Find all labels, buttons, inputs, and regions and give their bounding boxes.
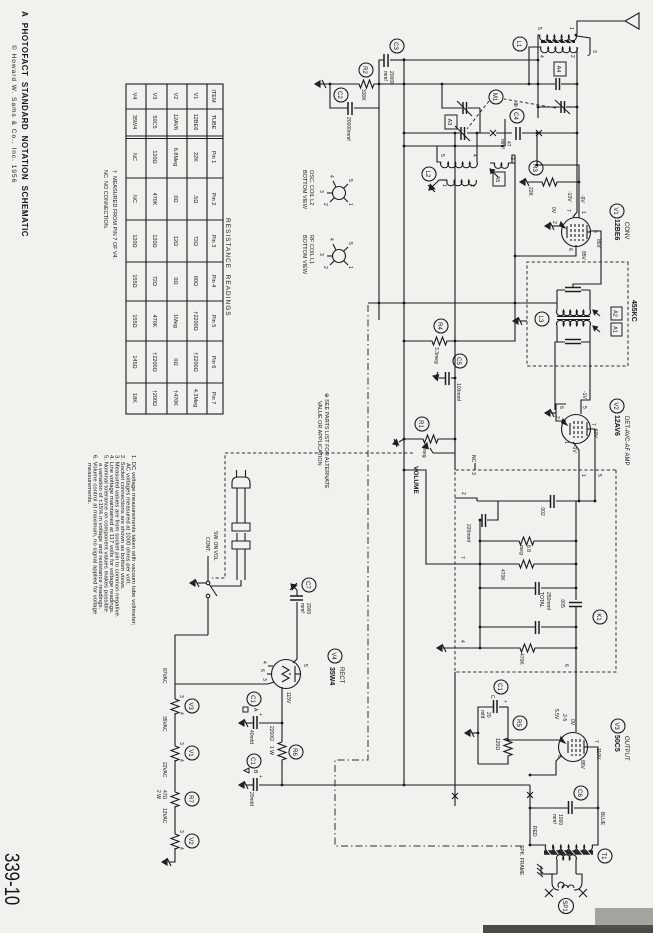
svg-text:ITEM: ITEM	[210, 89, 216, 103]
svg-text:BOTTOM VIEW: BOTTOM VIEW	[301, 235, 307, 275]
svg-text:0Ω: 0Ω	[172, 277, 178, 284]
svg-text:5: 5	[347, 242, 353, 245]
wire switch to heater chain	[175, 635, 208, 684]
label R4	[434, 319, 448, 333]
svg-text:0Ω: 0Ω	[172, 358, 178, 365]
svg-text:22VAC: 22VAC	[161, 762, 167, 778]
antenna	[625, 13, 639, 29]
svg-text:1: 1	[580, 474, 586, 477]
svg-text:A5: A5	[494, 176, 500, 183]
svg-text:M1: M1	[491, 93, 497, 102]
junction trimmer top	[576, 83, 579, 86]
interlock connector half B	[232, 541, 250, 549]
wire C3 drop	[390, 59, 404, 61]
capacitor C4 47mmf	[516, 127, 520, 140]
svg-text:† MEASURED FROM PIN 7 OF V4.: † MEASURED FROM PIN 7 OF V4.	[111, 170, 117, 260]
resistor R3 22K	[527, 178, 579, 186]
svg-text:220mmf: 220mmf	[465, 524, 471, 543]
slug arrow (L2)	[490, 169, 498, 177]
svg-text:3: 3	[591, 50, 597, 53]
label V3	[611, 719, 625, 733]
svg-text:72Ω: 72Ω	[192, 236, 198, 246]
svg-text:3: 3	[470, 472, 476, 475]
wire osc grid line	[536, 133, 538, 165]
svg-text:6: 6	[563, 664, 569, 667]
electrolytic C1A 40mfd	[259, 722, 282, 724]
svg-text:85V: 85V	[580, 251, 586, 261]
dashed link volume to switch	[212, 453, 413, 578]
IF secondary bottom rail	[556, 326, 558, 342]
svg-text:6.8: 6.8	[525, 545, 531, 552]
svg-text:Pin 7: Pin 7	[210, 392, 216, 405]
x splice mark (gang bottom)	[490, 130, 496, 136]
svg-text:3: 3	[178, 830, 184, 833]
capacitor .005	[569, 603, 582, 607]
IF primary top rail	[589, 290, 591, 310]
wire heater end	[169, 848, 175, 862]
couplate K1 dashed box	[455, 470, 616, 672]
svg-text:V2: V2	[187, 837, 193, 845]
svg-text:Pin 2: Pin 2	[210, 193, 216, 206]
svg-text:6.8Meg: 6.8Meg	[172, 148, 178, 166]
svg-text:0V: 0V	[550, 207, 556, 214]
svg-text:mmf: mmf	[499, 139, 505, 149]
svg-text:20mfd: 20mfd	[248, 792, 254, 806]
svg-text:3.3meg: 3.3meg	[433, 347, 439, 364]
heater V1	[171, 746, 179, 761]
svg-text:C7: C7	[304, 581, 310, 589]
trimmer A5 box	[493, 172, 505, 186]
gang motor label M1	[489, 90, 503, 104]
svg-text:2: 2	[469, 184, 475, 187]
coil L1 secondary winding	[541, 47, 578, 53]
wire R3 to V1 osc grid	[537, 165, 579, 218]
svg-text:⊕ SEE PARTS LIST FOR ALTERNATE: ⊕ SEE PARTS LIST FOR ALTERNATE	[323, 393, 329, 489]
svg-text:3: 3	[318, 190, 324, 193]
svg-text:NC: NC	[470, 455, 476, 463]
svg-text:A: A	[252, 708, 258, 712]
svg-text:1: 1	[441, 184, 447, 187]
wire detector line to power	[454, 672, 456, 806]
electrolytic C1B 20mfd	[254, 778, 258, 791]
svg-text:1Meg: 1Meg	[172, 314, 178, 328]
IF primary bottom rail	[556, 290, 558, 310]
AC line plug	[232, 470, 250, 488]
svg-text:V4: V4	[330, 652, 336, 660]
svg-text:12BE6: 12BE6	[613, 219, 620, 241]
junction IF B+	[403, 302, 406, 305]
svg-text:mfd: mfd	[479, 710, 485, 719]
wire L1 tank bottom rail	[538, 35, 540, 118]
wire heater	[174, 713, 176, 746]
svg-text:40mfd: 40mfd	[248, 730, 254, 744]
svg-text:4: 4	[178, 847, 184, 850]
label R2	[359, 63, 373, 77]
svg-text:V2: V2	[172, 93, 178, 100]
wire heater	[174, 760, 176, 792]
junction R2 top	[378, 83, 381, 86]
label C4	[510, 109, 524, 123]
wire V3 plate to T1	[588, 747, 599, 845]
wire tickler to screen rail	[490, 162, 515, 164]
label V2	[610, 399, 624, 413]
svg-text:6: 6	[558, 406, 564, 409]
gang capacitor C4 line	[467, 132, 577, 134]
svg-text:A PHOTOFACT STANDARD NOTATI: A PHOTOFACT STANDARD NOTATION SCHEMATIC	[20, 11, 29, 237]
label R5	[513, 716, 527, 730]
wire L1 secondary drop	[529, 47, 541, 84]
x splice mark (gang)	[536, 130, 542, 136]
svg-text:4: 4	[471, 154, 477, 157]
interlock prongs	[237, 533, 245, 541]
svg-text:mmf: mmf	[551, 814, 557, 824]
ground arrow (R3)	[520, 178, 529, 186]
svg-text:RECT: RECT	[338, 667, 344, 684]
junction T1 RED	[529, 844, 532, 847]
junction B+ bus	[403, 784, 406, 787]
AC cord	[237, 488, 245, 523]
ground stub below IF box	[513, 317, 527, 325]
wire osc mystery stub	[404, 119, 505, 146]
svg-text:SW. ON VOL.: SW. ON VOL.	[212, 531, 218, 562]
dashed gang link M1	[504, 99, 556, 108]
svg-text:V2: V2	[612, 402, 618, 410]
wire V2 plate to K1 pin5	[591, 429, 596, 470]
dashed gang link M1 to C4	[467, 101, 489, 129]
wire tank bottom to B- line	[437, 146, 441, 162]
svg-text:2200Ω: 2200Ω	[268, 726, 274, 741]
svg-text:0Ω: 0Ω	[172, 195, 178, 202]
junction screen rail	[514, 255, 517, 258]
heater V3	[171, 699, 179, 714]
resistor R7 47ohm	[171, 792, 179, 807]
svg-text:2: 2	[322, 266, 328, 269]
trimmer A4 box	[554, 62, 566, 76]
wire V4 heater to chain	[175, 682, 274, 684]
svg-text:L1: L1	[515, 41, 521, 48]
svg-text:C: C	[489, 695, 495, 699]
tank return column	[379, 83, 538, 85]
terminal mark square	[243, 707, 248, 712]
svg-text:1: 1	[347, 203, 353, 206]
capacitor C2 20000mmf	[354, 107, 379, 109]
svg-text:© Howard W. Sams & Co., Inc. 1: © Howard W. Sams & Co., Inc. 1956	[10, 45, 18, 183]
label C5	[453, 354, 467, 368]
label L3	[535, 312, 549, 326]
svg-text:87VAC: 87VAC	[161, 668, 167, 684]
svg-text:4.3Meg: 4.3Meg	[192, 389, 198, 407]
x marks speaker	[579, 889, 587, 897]
svg-text:V3: V3	[151, 93, 157, 100]
coil L2 tickler winding	[494, 163, 508, 168]
svg-text:115V: 115V	[285, 692, 291, 704]
junction C1A	[281, 722, 284, 725]
svg-text:85V: 85V	[595, 239, 601, 249]
svg-text:V3: V3	[187, 702, 193, 710]
wire L1 tank top rail	[576, 47, 578, 118]
svg-text:SPK. FRAME: SPK. FRAME	[518, 845, 524, 876]
svg-text:Pin 1: Pin 1	[210, 151, 216, 164]
heater V2	[171, 834, 179, 849]
svg-text:Pin 5: Pin 5	[210, 315, 216, 328]
svg-text:72Ω: 72Ω	[151, 276, 157, 286]
label R6	[289, 745, 303, 759]
svg-text:.5Ω: .5Ω	[192, 195, 198, 204]
svg-text:+: +	[257, 775, 263, 778]
svg-text:7: 7	[565, 209, 571, 212]
resistance readings table	[102, 84, 231, 414]
wire IF secondary return	[555, 342, 557, 410]
svg-text:RED: RED	[531, 826, 537, 837]
svg-text:C1: C1	[249, 695, 255, 703]
IF secondary tuning capacitor	[557, 341, 590, 343]
svg-text:C3: C3	[392, 42, 398, 50]
ground arrow (R2/C2)	[315, 80, 326, 88]
svg-text:4: 4	[328, 238, 334, 241]
svg-text:mmf: mmf	[299, 603, 305, 613]
svg-text:4: 4	[328, 175, 334, 178]
svg-text:2-5: 2-5	[561, 714, 567, 721]
svg-text:4: 4	[459, 640, 465, 643]
wire antenna to L1	[577, 21, 625, 34]
label V1	[610, 204, 624, 218]
junction AVC/L1	[537, 59, 540, 62]
IF transformer dashed box	[527, 262, 628, 366]
pin stubs V4	[267, 666, 273, 674]
svg-text:1: 1	[568, 27, 574, 30]
junction R6 out	[281, 784, 284, 787]
junction L1 top	[575, 34, 578, 37]
svg-text:V1: V1	[192, 93, 198, 100]
svg-text:A1: A1	[612, 326, 618, 333]
svg-text:5: 5	[439, 154, 445, 157]
svg-text:CONT.: CONT.	[204, 537, 210, 552]
screen B+ rail	[455, 155, 515, 341]
svg-text:V1: V1	[612, 207, 618, 215]
svg-text:R6: R6	[291, 748, 297, 756]
junction trimmer bottom	[537, 83, 540, 86]
svg-text:60Ω: 60Ω	[192, 276, 198, 286]
wire V3 cathode	[508, 739, 559, 741]
wire pin2 stub	[455, 498, 477, 501]
tube V3 50C5	[559, 733, 588, 762]
junction R1	[454, 438, 457, 441]
ground arrow (L2)	[428, 180, 447, 192]
transformer T1 core	[544, 850, 593, 855]
svg-text:330K: 330K	[360, 89, 366, 101]
svg-text:5: 5	[581, 406, 587, 409]
label L2	[422, 167, 436, 181]
interlock connector half A	[232, 523, 250, 531]
core lines L3	[557, 317, 590, 320]
svg-text:2 W: 2 W	[155, 790, 161, 799]
svg-text:2: 2	[322, 203, 328, 206]
svg-text:2: 2	[460, 492, 466, 495]
svg-text:V3: V3	[613, 722, 619, 730]
svg-text:470K: 470K	[518, 653, 524, 665]
svg-text:VALUE OR APPLICATION: VALUE OR APPLICATION	[316, 401, 322, 466]
electrolytic C1C 20mfd	[499, 706, 508, 708]
coil L3 secondary	[557, 320, 591, 326]
socket bottom view: RF COIL L1	[301, 235, 353, 275]
speaker SP1 voice coil loop	[552, 860, 582, 890]
svg-text:250mmf: 250mmf	[545, 592, 551, 611]
bus B+ main rail	[403, 58, 405, 785]
svg-text:C4: C4	[512, 112, 518, 120]
osc gang capacitor section	[461, 127, 465, 140]
resistor R4 3.3meg	[404, 337, 455, 345]
svg-text:OUTPUT: OUTPUT	[623, 736, 629, 761]
svg-text:C5: C5	[455, 357, 461, 365]
svg-text:NC NO CONNECTION.: NC NO CONNECTION.	[102, 170, 108, 230]
chassis boundary dash-dot	[335, 305, 525, 846]
svg-text:12Ω: 12Ω	[172, 236, 178, 246]
x splice (boundary crossing)	[527, 792, 533, 798]
junction bypass/B+ drop	[378, 302, 381, 305]
svg-text:1: 1	[563, 441, 569, 444]
osc tank top rail	[476, 133, 478, 162]
capacitor C7 2000mmf	[290, 596, 303, 600]
wire IF secondary to V2 grid	[581, 342, 590, 414]
svg-text:+: +	[257, 713, 263, 716]
svg-text:measurements.: measurements.	[86, 463, 92, 505]
svg-text:35W4: 35W4	[328, 667, 335, 685]
cathode stub + ground (V1)	[545, 222, 563, 230]
capacitor .002	[556, 500, 595, 502]
terminal mark triangle	[244, 768, 249, 773]
wire bypass node to B+ drop	[378, 108, 380, 320]
svg-text:Pin 3: Pin 3	[210, 235, 216, 248]
wire K1 pin5 bus	[594, 470, 596, 501]
IF secondary top rail	[589, 326, 591, 342]
svg-text:SP1: SP1	[561, 900, 567, 912]
label C3	[390, 39, 404, 53]
svg-text:2: 2	[569, 55, 575, 58]
ground arrow (heater)	[162, 858, 171, 866]
transformer T1 secondary	[557, 855, 577, 860]
svg-text:V4: V4	[131, 93, 137, 100]
resistor R5 120ohm	[478, 738, 512, 764]
wire V1 plate to IF primary	[573, 231, 601, 287]
trimmer capacitor (osc)	[442, 84, 480, 133]
svg-text:C2: C2	[336, 91, 342, 99]
label R3	[529, 161, 543, 175]
svg-text:Pin 6: Pin 6	[210, 356, 216, 369]
label C1 A	[247, 692, 261, 706]
svg-text:4: 4	[178, 759, 184, 762]
tube V2 12AV6	[562, 415, 591, 444]
see parts list note	[316, 393, 329, 489]
wiper arrow (R1)	[423, 443, 455, 453]
wire B+ to T1 RED	[530, 785, 546, 845]
B+ riser line	[259, 784, 530, 786]
svg-text:120Ω: 120Ω	[494, 738, 500, 750]
label K1	[593, 610, 607, 624]
capacitor C5 100mmf	[451, 377, 455, 379]
svg-text:BOTTOM VIEW: BOTTOM VIEW	[301, 170, 307, 210]
gang tuning capacitor section (antenna)	[538, 106, 577, 108]
resistor R2 330K	[355, 80, 379, 88]
junction C5	[454, 377, 457, 380]
svg-text:†470K: †470K	[172, 390, 178, 406]
svg-text:mmf: mmf	[382, 71, 388, 81]
wire V3 screen to B+	[530, 756, 561, 775]
svg-text:1: 1	[347, 266, 353, 269]
wire V4 cathode B+	[281, 687, 283, 742]
resistor 470K second	[443, 644, 576, 652]
svg-text:OSC. COIL L2: OSC. COIL L2	[308, 170, 314, 205]
ground arrow (R1 return)	[393, 439, 404, 447]
svg-text:R1: R1	[417, 420, 423, 428]
slug arrow A2	[593, 310, 600, 316]
x splice (boundary crossing 2)	[452, 793, 458, 799]
svg-text:7: 7	[593, 740, 599, 743]
label C1 C	[494, 680, 508, 694]
wire C7 to V4 plate	[293, 602, 297, 663]
svg-text:470K: 470K	[151, 315, 157, 328]
coil label L1	[513, 37, 527, 51]
svg-text:7: 7	[459, 556, 465, 559]
svg-text:R5: R5	[515, 719, 521, 727]
svg-text:12BE6: 12BE6	[192, 114, 198, 131]
svg-text:R4: R4	[436, 322, 442, 330]
svg-text:5.5V: 5.5V	[553, 709, 559, 720]
svg-text:NC: NC	[131, 153, 137, 161]
capacitor 220mmf	[482, 514, 486, 527]
svg-text:155Ω: 155Ω	[131, 274, 137, 287]
coil L3 primary	[557, 310, 591, 316]
junction osc return	[403, 145, 406, 148]
svg-text:22K: 22K	[192, 152, 198, 162]
capacitor K1 inner	[541, 626, 576, 628]
trimmer A3 box	[445, 115, 457, 129]
wire IF primary B+ return	[368, 302, 557, 304]
svg-text:470K: 470K	[151, 193, 157, 206]
svg-text:145Ω: 145Ω	[131, 355, 137, 368]
svg-text:2: 2	[551, 221, 557, 224]
svg-text:4: 4	[261, 661, 267, 664]
svg-text:6: 6	[567, 248, 573, 251]
svg-text:35W4: 35W4	[131, 115, 137, 129]
svg-text:18K: 18K	[131, 393, 137, 403]
wire screen rail to tickler	[508, 155, 515, 163]
cathode bus (V3)	[507, 707, 509, 738]
svg-text:35VAC: 35VAC	[161, 716, 167, 732]
svg-text:12AV6: 12AV6	[613, 415, 620, 436]
speaker frame ground	[537, 864, 554, 877]
svg-text:6: 6	[259, 669, 265, 672]
svg-text:DET-AVC-AF AMP: DET-AVC-AF AMP	[623, 416, 629, 466]
transformer T1 primary	[545, 845, 592, 852]
resistor 470K first / pin 7 line	[404, 470, 576, 568]
svg-text:12VAC: 12VAC	[161, 808, 167, 824]
svg-text:120Ω: 120Ω	[131, 234, 137, 247]
svg-text:T1: T1	[600, 852, 606, 860]
svg-text:RESISTANCE READINGS: RESISTANCE READINGS	[224, 218, 231, 317]
svg-text:A4: A4	[555, 66, 561, 73]
svg-text:meg: meg	[518, 545, 524, 555]
coil L2 feedback winding	[447, 180, 477, 186]
ground arrow (V3 cathode)	[465, 729, 478, 737]
label C1 B	[247, 754, 261, 768]
svg-text:5: 5	[347, 179, 353, 182]
svg-text:B: B	[252, 770, 258, 774]
svg-text:-10V: -10V	[566, 191, 572, 202]
svg-text:R2: R2	[361, 66, 367, 74]
svg-text:-1V: -1V	[581, 391, 587, 399]
coil L1 primary winding	[540, 35, 577, 41]
svg-text:†2200Ω: †2200Ω	[192, 311, 198, 330]
